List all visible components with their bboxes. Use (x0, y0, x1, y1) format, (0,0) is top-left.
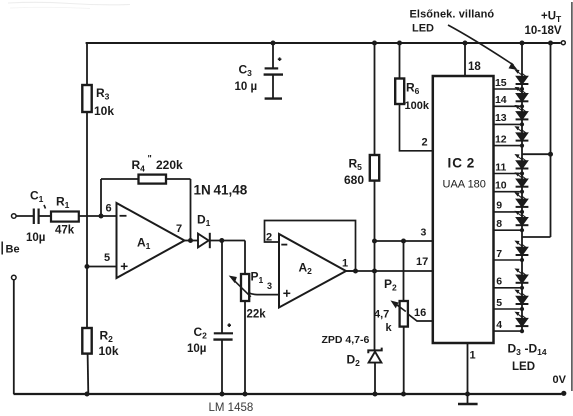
svg-text:16: 16 (414, 307, 426, 319)
svg-text:0V: 0V (553, 374, 567, 386)
svg-text:18: 18 (468, 61, 481, 73)
svg-text:9: 9 (496, 200, 502, 212)
svg-text:7: 7 (496, 248, 502, 260)
svg-text:100k: 100k (405, 100, 430, 112)
svg-text:13: 13 (495, 112, 507, 124)
svg-text:4: 4 (496, 319, 502, 331)
svg-text:Elsőnek. villanó: Elsőnek. villanó (410, 9, 495, 21)
svg-text:12: 12 (495, 133, 507, 145)
svg-text:7: 7 (176, 223, 182, 235)
svg-text:10: 10 (495, 180, 507, 192)
svg-text:8: 8 (496, 218, 502, 230)
svg-text:LM 1458: LM 1458 (209, 402, 254, 414)
svg-text:14: 14 (495, 94, 507, 106)
svg-text:1N 41,48: 1N 41,48 (194, 183, 248, 198)
svg-text:47k: 47k (55, 225, 75, 237)
svg-text:11: 11 (495, 161, 506, 173)
svg-text:10µ: 10µ (187, 343, 206, 355)
svg-text:6: 6 (496, 276, 502, 288)
svg-text:IC 2: IC 2 (448, 156, 476, 171)
svg-text:10k: 10k (94, 104, 114, 118)
svg-text:15: 15 (495, 77, 507, 89)
svg-text:22k: 22k (247, 309, 267, 321)
svg-text:10 µ: 10 µ (235, 81, 258, 93)
svg-text:220k: 220k (156, 158, 183, 172)
svg-text:5: 5 (496, 297, 502, 309)
svg-text:UAA 180: UAA 180 (443, 179, 486, 191)
svg-text:2: 2 (422, 137, 428, 149)
svg-text:": " (148, 154, 152, 164)
svg-text:1: 1 (342, 258, 348, 270)
svg-text:680: 680 (344, 173, 364, 187)
svg-text:10µ: 10µ (26, 232, 45, 244)
svg-text:4,7: 4,7 (374, 309, 389, 321)
svg-text:6: 6 (106, 203, 112, 215)
svg-text:k: k (386, 322, 393, 334)
svg-text:3: 3 (421, 227, 427, 239)
svg-text:10k: 10k (99, 344, 119, 358)
svg-text:Be: Be (6, 244, 20, 256)
svg-text:5: 5 (104, 252, 110, 264)
svg-text:17: 17 (416, 256, 428, 268)
svg-text:ZPD 4,7-6: ZPD 4,7-6 (322, 334, 370, 346)
svg-text:2: 2 (266, 232, 272, 244)
svg-text:LED: LED (412, 23, 434, 35)
svg-text:3: 3 (267, 281, 272, 291)
svg-text:LED: LED (512, 361, 535, 373)
svg-text:10-18V: 10-18V (525, 25, 562, 37)
svg-text:1: 1 (470, 350, 476, 362)
